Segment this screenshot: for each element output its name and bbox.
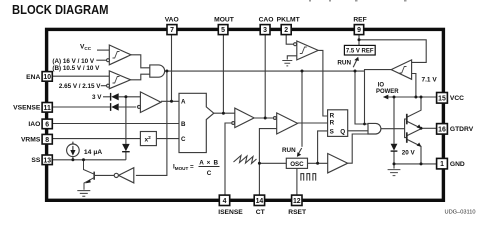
svg-text:RUN: RUN bbox=[282, 147, 296, 154]
svg-text:POWER: POWER bbox=[376, 89, 399, 95]
svg-text:2: 2 bbox=[284, 27, 288, 34]
svg-text:S: S bbox=[330, 129, 334, 136]
svg-text:R: R bbox=[330, 112, 335, 119]
svg-text:13: 13 bbox=[43, 157, 51, 164]
svg-text:VSENSE: VSENSE bbox=[13, 105, 41, 112]
svg-text:7.1 V: 7.1 V bbox=[422, 77, 438, 84]
svg-text:GND: GND bbox=[450, 161, 465, 168]
svg-text:8: 8 bbox=[45, 137, 49, 144]
svg-text:11: 11 bbox=[44, 105, 51, 112]
svg-text:ISENSE: ISENSE bbox=[218, 209, 243, 216]
svg-text:3: 3 bbox=[263, 27, 267, 34]
svg-text:CT: CT bbox=[256, 209, 266, 216]
svg-text:VRMS: VRMS bbox=[21, 137, 41, 144]
svg-text:(B) 10.5 V / 10 V: (B) 10.5 V / 10 V bbox=[52, 65, 100, 72]
svg-text:IAO: IAO bbox=[28, 121, 40, 128]
svg-text:IO: IO bbox=[378, 83, 385, 89]
svg-text:SS: SS bbox=[31, 157, 40, 164]
svg-text:20 V: 20 V bbox=[402, 149, 416, 156]
svg-text:15: 15 bbox=[438, 95, 446, 102]
svg-text:5: 5 bbox=[221, 27, 225, 34]
svg-text:RSET: RSET bbox=[288, 209, 307, 216]
svg-text:MOUT: MOUT bbox=[214, 16, 235, 23]
svg-text:C: C bbox=[181, 136, 186, 143]
svg-text:14: 14 bbox=[256, 198, 264, 205]
svg-text:A: A bbox=[181, 98, 186, 105]
svg-text:VAO: VAO bbox=[165, 16, 179, 23]
svg-text:UDG–03110: UDG–03110 bbox=[445, 210, 477, 216]
svg-text:OSC: OSC bbox=[290, 161, 304, 168]
svg-text:ENA: ENA bbox=[26, 74, 40, 81]
svg-text:7.5 V REF: 7.5 V REF bbox=[346, 48, 374, 54]
svg-text:14 µA: 14 µA bbox=[84, 149, 102, 156]
svg-text:C: C bbox=[207, 170, 212, 177]
svg-text:B: B bbox=[181, 121, 186, 128]
svg-text:CAO: CAO bbox=[259, 16, 274, 23]
svg-text:6: 6 bbox=[45, 122, 49, 129]
svg-text:RUN: RUN bbox=[337, 59, 351, 66]
svg-text:10: 10 bbox=[43, 74, 51, 81]
svg-text:VCC: VCC bbox=[450, 95, 464, 102]
svg-text:7: 7 bbox=[170, 27, 174, 34]
svg-text:3 V: 3 V bbox=[92, 94, 102, 101]
svg-text:GTDRV: GTDRV bbox=[450, 126, 474, 133]
svg-text:REF: REF bbox=[353, 16, 366, 23]
svg-text:PKLMT: PKLMT bbox=[277, 16, 301, 23]
svg-text:16: 16 bbox=[438, 126, 446, 133]
svg-text:(A) 16 V / 10 V: (A) 16 V / 10 V bbox=[52, 58, 94, 65]
svg-text:4: 4 bbox=[223, 198, 227, 205]
svg-text:Q: Q bbox=[340, 129, 345, 136]
svg-text:12: 12 bbox=[293, 198, 301, 205]
svg-text:2.65 V / 2.15 V: 2.65 V / 2.15 V bbox=[59, 83, 101, 90]
svg-text:1: 1 bbox=[440, 161, 444, 168]
svg-text:R: R bbox=[330, 119, 335, 126]
svg-text:A × B: A × B bbox=[199, 159, 219, 166]
svg-text:BLOCK DIAGRAM: BLOCK DIAGRAM bbox=[12, 2, 109, 17]
svg-text:9: 9 bbox=[357, 27, 361, 34]
